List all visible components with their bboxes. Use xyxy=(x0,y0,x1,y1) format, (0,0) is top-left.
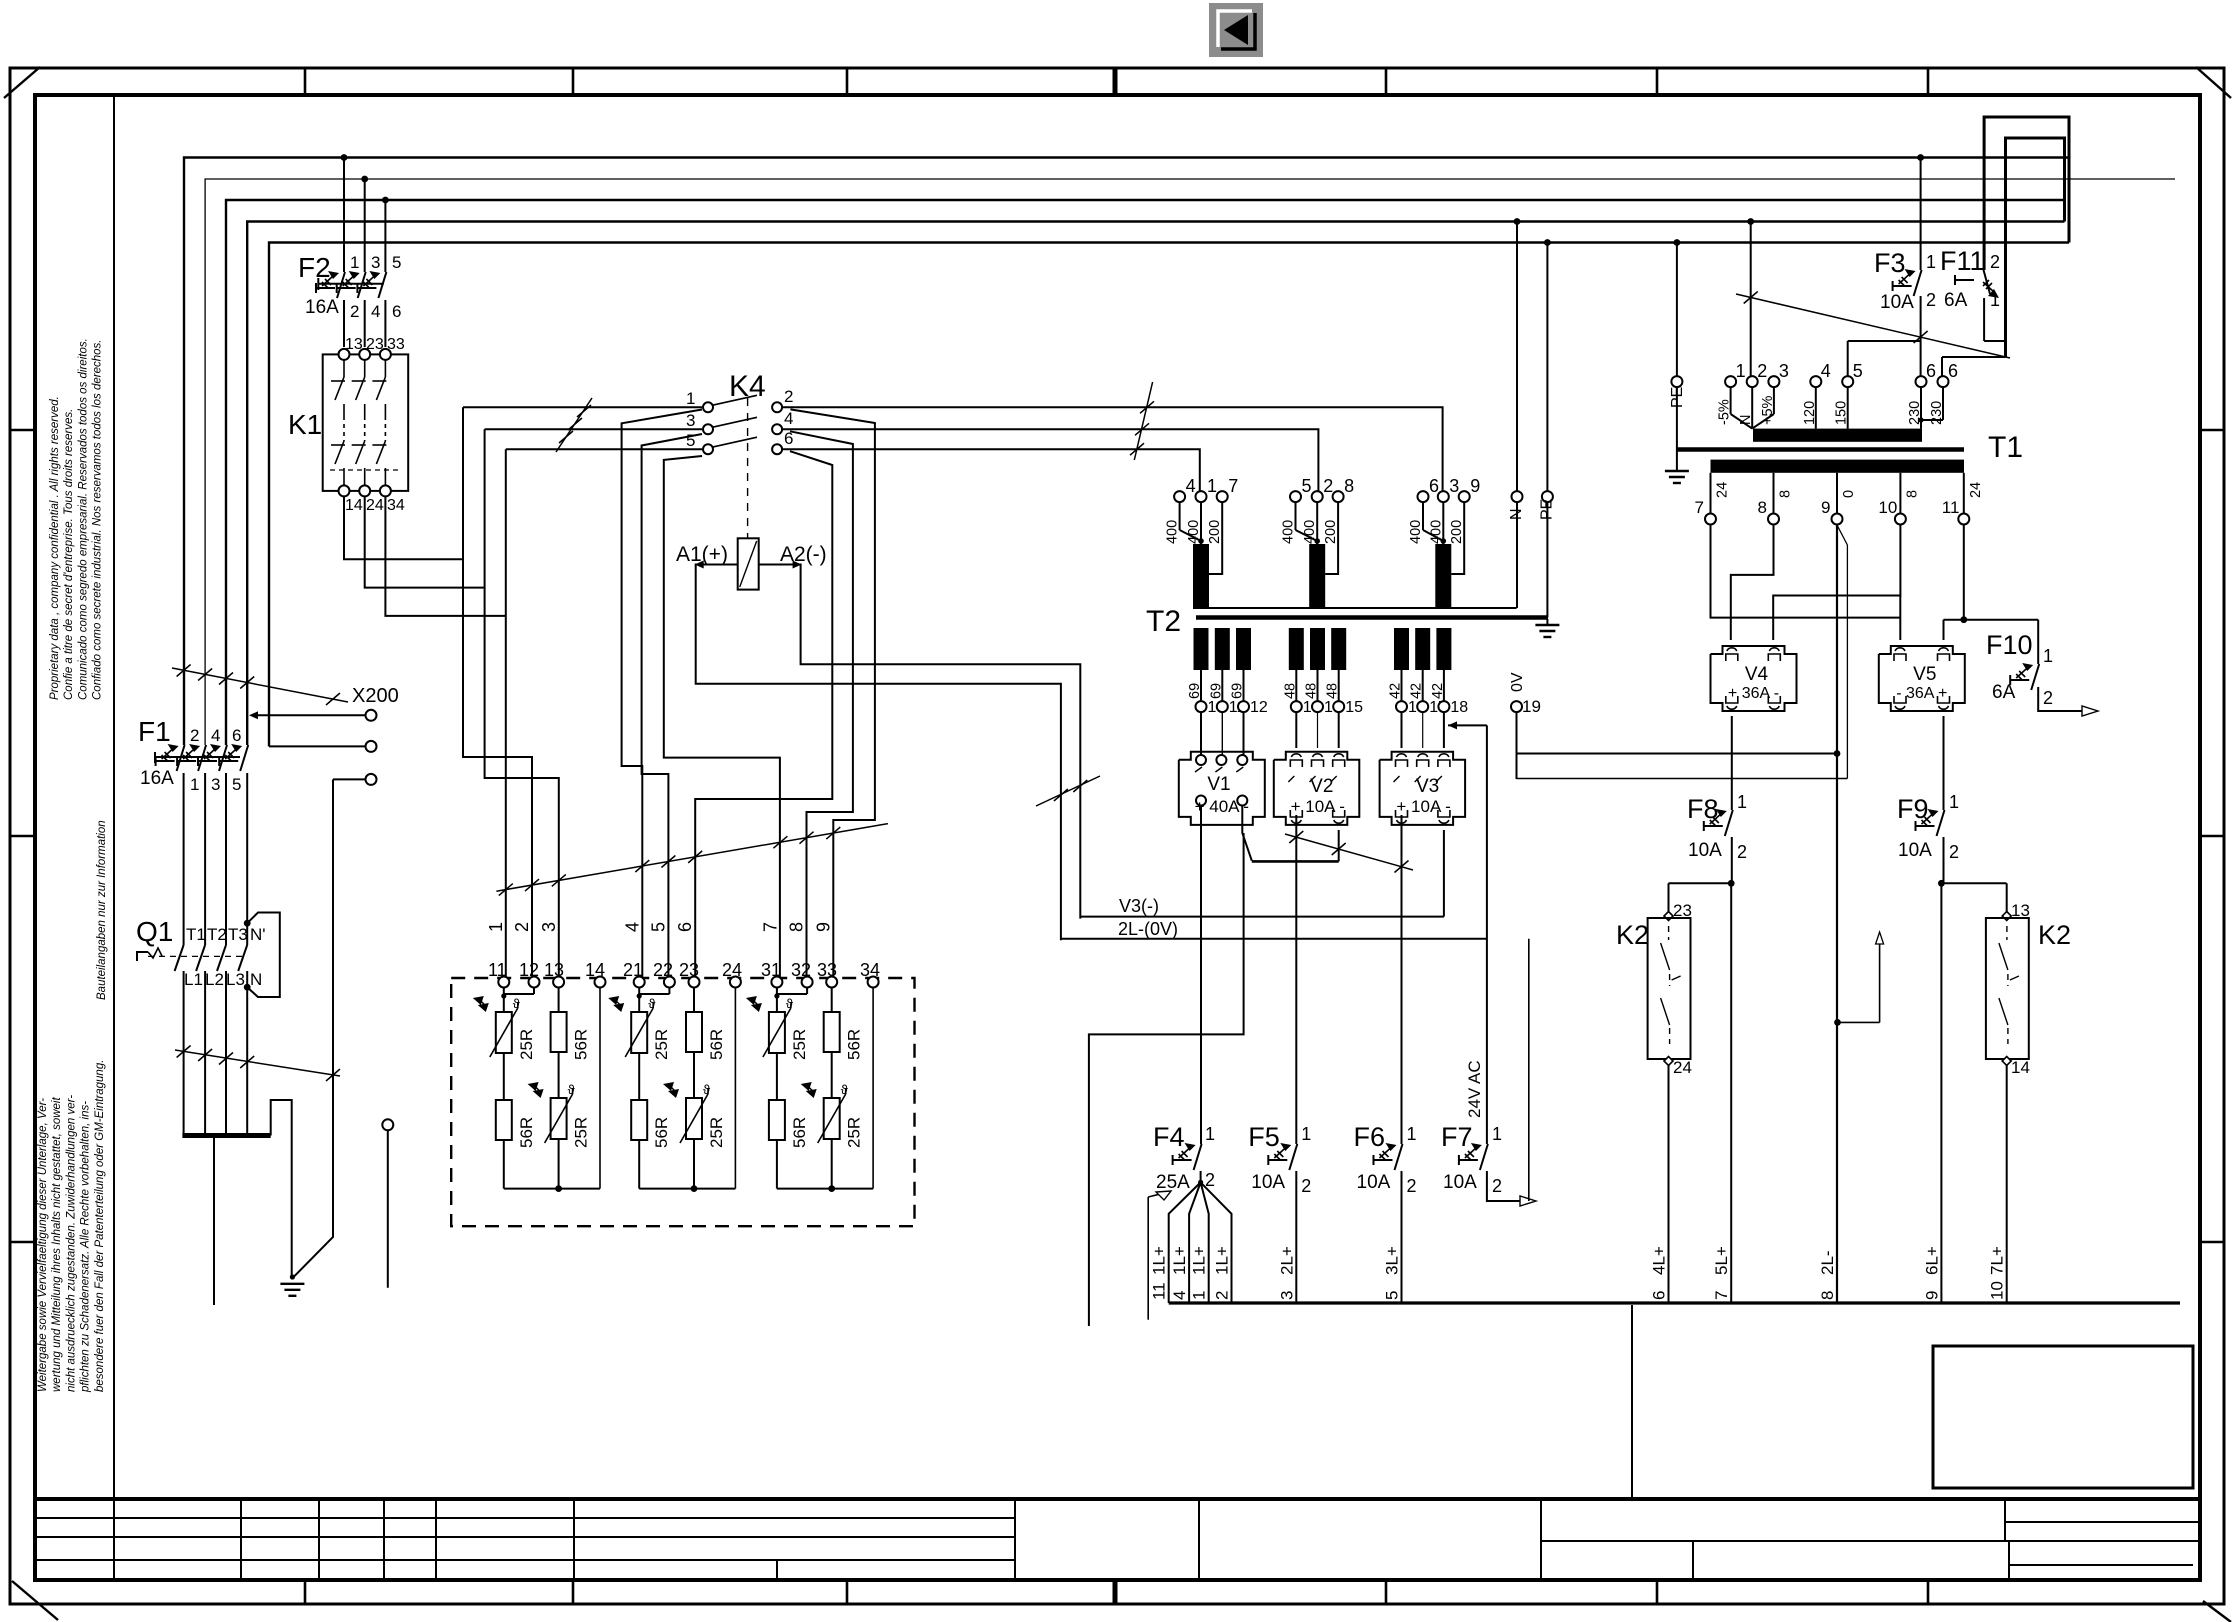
svg-text:wertung und Mitteilung ihres: wertung und Mitteilung ihres Inhalts nic… xyxy=(51,1097,63,1392)
svg-text:1: 1 xyxy=(1301,1124,1311,1144)
wire feeder 1 xyxy=(505,449,507,981)
svg-text:pflichten zu Schadenersatz. Al: pflichten zu Schadenersatz. Alle Rechte … xyxy=(80,1101,92,1393)
svg-text:14: 14 xyxy=(2011,1058,2030,1077)
rectifier V1 xyxy=(1179,752,1265,825)
svg-text:400: 400 xyxy=(1408,520,1424,544)
terminal spare circle xyxy=(382,1119,393,1287)
svg-text:6: 6 xyxy=(232,726,241,745)
wire K4 row 2 xyxy=(485,429,1319,491)
svg-text:1: 1 xyxy=(1737,792,1747,812)
wire F10 output arrow xyxy=(2038,687,2098,716)
svg-text:69: 69 xyxy=(1230,683,1246,699)
transformer T2 label xyxy=(1146,605,1181,638)
svg-text:25R: 25R xyxy=(517,1029,536,1060)
wire Q1 N bypass jumper xyxy=(244,913,280,998)
fuse F4 xyxy=(1153,1122,1215,1193)
svg-text:24: 24 xyxy=(1715,482,1731,498)
svg-text:F1: F1 xyxy=(138,716,171,747)
svg-text:nicht ausdruecklich zugestande: nicht ausdruecklich zugestanden. Zuwider… xyxy=(65,1095,77,1392)
svg-text:0: 0 xyxy=(1841,490,1857,498)
svg-text:V1: V1 xyxy=(1207,774,1230,795)
svg-text:3: 3 xyxy=(686,411,695,430)
wire K4 pin6 drop xyxy=(695,451,832,981)
svg-text:2: 2 xyxy=(1407,1176,1417,1196)
svg-text:X200: X200 xyxy=(352,685,399,707)
wire T1 PE riser xyxy=(1669,239,1686,449)
svg-text:2L-: 2L- xyxy=(1818,1250,1837,1275)
wire bus L2 xyxy=(205,179,2175,745)
wire T2 to V2 xyxy=(1296,712,1338,748)
svg-text:+ 10A -: + 10A - xyxy=(1396,797,1450,816)
svg-text:2: 2 xyxy=(1926,290,1936,310)
border zone ticks bottom xyxy=(305,1580,1928,1604)
wire bus hook outer xyxy=(1984,117,2069,270)
svg-text:34: 34 xyxy=(387,497,405,514)
svg-text:2: 2 xyxy=(1492,1176,1502,1196)
svg-text:6A: 6A xyxy=(1992,682,2016,703)
resistor group first terminals xyxy=(498,977,605,988)
svg-text:V4: V4 xyxy=(1745,664,1769,685)
svg-text:18: 18 xyxy=(1450,699,1468,716)
transformer T2 primary terminals 6 3 9 xyxy=(1408,476,1480,544)
node 2L 0V rail xyxy=(1061,919,1487,939)
rectifier V4 xyxy=(1711,646,1797,711)
svg-text:24: 24 xyxy=(366,497,384,514)
svg-text:7L+: 7L+ xyxy=(1988,1246,2007,1275)
wire K4 pin4 drop xyxy=(790,431,853,981)
node V3 minus rail xyxy=(1080,896,1444,917)
svg-text:T3: T3 xyxy=(228,925,248,944)
svg-text:7: 7 xyxy=(760,922,780,932)
svg-text:T2: T2 xyxy=(207,925,227,944)
transformer T2 secondary winding 15 xyxy=(1325,628,1363,716)
wire 0V rails xyxy=(1517,712,1848,779)
svg-text:69: 69 xyxy=(1187,683,1203,699)
svg-text:48: 48 xyxy=(1325,683,1341,699)
svg-text:25R: 25R xyxy=(572,1117,591,1148)
transformer T1 label xyxy=(1988,431,2023,464)
wire V1 minus jumper xyxy=(1242,806,1338,861)
wire K4 pin3 tap drop xyxy=(642,434,702,981)
svg-text:4: 4 xyxy=(371,302,380,321)
rectifier V5 xyxy=(1879,646,1965,711)
svg-text:3: 3 xyxy=(1449,476,1459,496)
svg-text:10A: 10A xyxy=(1443,1172,1477,1193)
svg-text:11: 11 xyxy=(1150,1282,1169,1300)
varistor 25R lower first xyxy=(528,1052,591,1148)
svg-text:- 36A +: - 36A + xyxy=(1896,685,1947,702)
margin text Weitergabe notice xyxy=(37,1060,106,1393)
svg-text:Confie a titre de secret d'ent: Confie a titre de secret d'entreprise. T… xyxy=(63,409,75,700)
wire V4 output to F8 xyxy=(1731,716,1733,810)
svg-text:ϑ: ϑ xyxy=(786,996,794,1011)
wire T2 to V3 xyxy=(1402,712,1444,748)
labels F4 fan wires xyxy=(1150,1246,1232,1300)
svg-text:25R: 25R xyxy=(652,1029,671,1060)
switch Q1 xyxy=(136,916,266,995)
varistor 25R upper first xyxy=(473,988,536,1061)
resistor load bank enclosure xyxy=(451,978,914,1226)
wire F8 to rail and K2 branch xyxy=(1669,837,1735,1303)
svg-text:2: 2 xyxy=(1737,842,1747,862)
svg-text:3L+: 3L+ xyxy=(1383,1246,1402,1275)
svg-text:4: 4 xyxy=(211,726,220,745)
svg-text:6: 6 xyxy=(1429,476,1439,496)
wire feeder 2 xyxy=(463,407,532,981)
wire stub below bar xyxy=(213,1138,215,1305)
transformer T1 primary winding xyxy=(1753,429,1922,442)
fuse F10 xyxy=(1986,620,2053,708)
wire V5 output to F9 xyxy=(1943,716,1945,810)
svg-text:14: 14 xyxy=(345,497,363,514)
svg-text:19: 19 xyxy=(1522,697,1541,716)
title block grid xyxy=(35,1499,2200,1580)
wire T2 primary taps 6 3 9 xyxy=(1423,502,1464,574)
svg-text:69: 69 xyxy=(1208,683,1224,699)
svg-text:6: 6 xyxy=(675,922,695,932)
svg-text:V3(-): V3(-) xyxy=(1119,896,1159,916)
wire T2 primary taps 5 2 8 xyxy=(1296,502,1339,574)
svg-text:10A: 10A xyxy=(1251,1172,1285,1193)
svg-text:16A: 16A xyxy=(140,768,174,789)
svg-text:T1: T1 xyxy=(1988,431,2023,464)
svg-text:5: 5 xyxy=(1383,1291,1402,1300)
svg-text:2: 2 xyxy=(512,922,532,932)
svg-text:Comunicado como segredo empres: Comunicado como segredo empresarial. Res… xyxy=(77,338,89,700)
wire group slash above F1 xyxy=(172,665,348,706)
wire group slash T2 feed rows xyxy=(1130,382,1154,460)
fuse F11 xyxy=(1940,117,2006,341)
svg-text:2L-(0V): 2L-(0V) xyxy=(1118,919,1178,939)
svg-text:F11: F11 xyxy=(1940,246,1985,276)
transformer T2 secondary winding 17 xyxy=(1409,628,1447,716)
wire K4 row 1 xyxy=(463,407,1443,491)
node N bar xyxy=(182,1133,270,1138)
margin text Bauteilangaben xyxy=(96,820,108,1000)
svg-text:5: 5 xyxy=(232,775,241,794)
svg-text:T1: T1 xyxy=(186,925,206,944)
back navigation button xyxy=(1209,3,1263,57)
svg-text:8: 8 xyxy=(1904,490,1920,498)
wire bus L1 xyxy=(184,158,2069,746)
svg-text:8: 8 xyxy=(1344,476,1354,496)
svg-text:F7: F7 xyxy=(1441,1122,1473,1152)
wire V1 plus to F4 xyxy=(1200,806,1202,1144)
svg-text:4: 4 xyxy=(1821,361,1831,381)
svg-text:200: 200 xyxy=(1449,520,1465,544)
wire T2 to V1 xyxy=(1201,712,1244,755)
svg-text:4: 4 xyxy=(1170,1291,1189,1300)
wire T1 tap 5 link xyxy=(1848,341,1921,376)
svg-text:A2(-): A2(-) xyxy=(780,543,827,566)
svg-text:1: 1 xyxy=(1205,1124,1215,1144)
wire T1 pin10 to V4 right xyxy=(1773,525,1900,641)
svg-text:Q1: Q1 xyxy=(136,916,173,947)
wire T2 PE riser xyxy=(1538,239,1555,617)
svg-text:1: 1 xyxy=(686,389,695,408)
border zone ticks right xyxy=(2200,430,2224,1242)
wire bus L3 xyxy=(226,200,2065,745)
wire F6 to rail xyxy=(1383,1171,1402,1303)
transformer T2 secondary winding 10 xyxy=(1187,628,1225,716)
terminal T2 0V 19 xyxy=(1509,672,1541,716)
wire T1 pin11 to V5 right xyxy=(1944,525,2039,641)
wire 2L spare drop xyxy=(1528,939,1530,1201)
svg-text:10A: 10A xyxy=(1357,1172,1391,1193)
svg-text:F9: F9 xyxy=(1897,794,1929,824)
breaker F1 xyxy=(138,716,248,794)
svg-text:8: 8 xyxy=(1778,490,1794,498)
svg-text:V2: V2 xyxy=(1310,776,1333,797)
svg-text:8: 8 xyxy=(1818,1291,1837,1300)
wire group slash below Q1 xyxy=(175,1046,340,1082)
svg-text:3: 3 xyxy=(1779,361,1789,381)
svg-text:2: 2 xyxy=(1990,252,2000,272)
svg-text:9: 9 xyxy=(1922,1291,1941,1300)
svg-text:3: 3 xyxy=(371,253,380,272)
svg-text:8: 8 xyxy=(787,922,807,932)
svg-text:42: 42 xyxy=(1388,683,1404,699)
transformer T2 secondary winding 13 xyxy=(1282,628,1320,716)
transformer T2 secondary winding 18 xyxy=(1430,628,1468,716)
svg-text:25R: 25R xyxy=(707,1117,726,1148)
svg-text:ϑ: ϑ xyxy=(648,996,656,1011)
wire K2 coil reference arrow xyxy=(1834,932,1884,1026)
svg-text:9: 9 xyxy=(1821,498,1830,517)
svg-text:K2: K2 xyxy=(2038,920,2071,950)
svg-text:F3: F3 xyxy=(1874,248,1906,278)
wire T1 primary taps xyxy=(1731,387,1943,429)
contactor contact K2 left xyxy=(1616,883,1692,1303)
svg-text:12: 12 xyxy=(1250,699,1268,716)
wire F7 output arrow xyxy=(1487,1171,1536,1206)
svg-text:6: 6 xyxy=(1948,361,1958,381)
svg-text:400: 400 xyxy=(1165,520,1181,544)
svg-text:10A: 10A xyxy=(1898,840,1932,861)
svg-text:4: 4 xyxy=(622,922,642,932)
svg-text:56R: 56R xyxy=(845,1029,864,1060)
svg-text:200: 200 xyxy=(1207,520,1223,544)
ground symbol T2 xyxy=(1535,619,1559,637)
labels rail terminals right xyxy=(1650,1246,2007,1300)
wire V1 minus drop xyxy=(1089,833,1244,1326)
svg-text:Confiado como secrete industri: Confiado como secrete industrial. Nos re… xyxy=(92,339,104,700)
wire K4 pin1 tap drop xyxy=(622,410,702,982)
svg-text:3: 3 xyxy=(539,922,559,932)
rectifier V2 xyxy=(1274,752,1360,825)
svg-text:2: 2 xyxy=(784,387,793,406)
svg-text:besondere fuer den Fall der Pa: besondere fuer den Fall der Patenterteil… xyxy=(94,1060,106,1392)
wire bus N xyxy=(247,222,2064,746)
svg-text:5: 5 xyxy=(1853,361,1863,381)
wire F9 to rail and K2 branch xyxy=(1938,837,2007,1303)
wire group slash feeder bundle xyxy=(496,824,888,896)
svg-text:Weitergabe sowie Vervielfael: Weitergabe sowie Vervielfaeltigung diese… xyxy=(37,1098,49,1392)
svg-text:+ 36A -: + 36A - xyxy=(1728,685,1779,702)
transformer T2 primary winding 2 xyxy=(1309,544,1325,608)
svg-text:10A: 10A xyxy=(1688,840,1722,861)
svg-text:48: 48 xyxy=(1304,683,1320,699)
svg-text:6: 6 xyxy=(392,302,401,321)
svg-text:6A: 6A xyxy=(1944,290,1968,311)
svg-text:2: 2 xyxy=(2043,688,2053,708)
svg-text:ϑ: ϑ xyxy=(568,1082,576,1097)
border zone ticks top xyxy=(305,68,1928,95)
svg-text:5: 5 xyxy=(1302,476,1312,496)
svg-text:16A: 16A xyxy=(305,297,339,318)
svg-text:7: 7 xyxy=(1712,1291,1731,1300)
svg-text:1: 1 xyxy=(1926,252,1936,272)
transformer T2 secondary winding 12 xyxy=(1230,628,1268,716)
svg-text:25R: 25R xyxy=(845,1117,864,1148)
wire group slash F3 F11 xyxy=(1736,292,2010,359)
svg-text:4L+: 4L+ xyxy=(1650,1246,1669,1275)
svg-text:9: 9 xyxy=(813,922,833,932)
svg-text:1: 1 xyxy=(2043,646,2053,666)
svg-text:L2: L2 xyxy=(205,970,224,989)
fuse F8 xyxy=(1687,792,1747,862)
svg-text:0V: 0V xyxy=(1509,672,1526,692)
svg-text:6: 6 xyxy=(1650,1291,1669,1300)
wire T1 pin9 thin branch xyxy=(1837,525,1847,779)
svg-text:7: 7 xyxy=(1228,476,1238,496)
svg-text:10A: 10A xyxy=(1880,292,1914,313)
resistor 56R lower third xyxy=(769,1053,809,1148)
transformer T2 core xyxy=(1196,615,1548,620)
svg-text:56R: 56R xyxy=(572,1029,591,1060)
resistor 56R upper third xyxy=(824,988,864,1061)
svg-text:7: 7 xyxy=(1695,498,1704,517)
svg-text:L3: L3 xyxy=(226,970,245,989)
wire bus hook inner xyxy=(2006,138,2065,357)
svg-text:K1: K1 xyxy=(288,409,322,440)
svg-text:25A: 25A xyxy=(1156,1172,1190,1193)
wire F4 fan-out xyxy=(1169,1171,1232,1303)
revision box xyxy=(1933,1346,2193,1488)
svg-text:4: 4 xyxy=(784,409,793,428)
svg-text:1: 1 xyxy=(1736,361,1746,381)
wire F5 to rail xyxy=(1277,1171,1296,1303)
svg-text:N': N' xyxy=(250,925,266,944)
svg-text:6L+: 6L+ xyxy=(1922,1246,1941,1275)
margin column line xyxy=(113,95,115,1499)
wire group slash V outputs xyxy=(1285,831,1413,873)
svg-text:1: 1 xyxy=(1990,290,2000,310)
svg-text:K2: K2 xyxy=(1616,920,1649,950)
svg-text:5L+: 5L+ xyxy=(1712,1246,1731,1275)
wire Q1 outputs to bar xyxy=(184,995,248,1136)
svg-text:ϑ: ϑ xyxy=(513,996,521,1011)
svg-text:ϑ: ϑ xyxy=(703,1082,711,1097)
svg-text:1L+: 1L+ xyxy=(1190,1246,1209,1275)
svg-text:56R: 56R xyxy=(707,1029,726,1060)
fuse F3 xyxy=(1874,154,1936,376)
transformer T2 primary winding 1 xyxy=(1193,544,1209,608)
resistor group second jumper xyxy=(637,988,670,999)
wire F1 to Q1 xyxy=(184,773,248,945)
svg-text:9: 9 xyxy=(1470,476,1480,496)
varistor 25R lower second xyxy=(663,1052,726,1148)
wire T1 pin10 to V5 left drop xyxy=(1899,596,1901,641)
varistor 25R lower third xyxy=(801,1052,864,1148)
resistor 56R lower first xyxy=(496,1053,536,1148)
margin text proprietary notice xyxy=(49,338,104,700)
svg-text:15: 15 xyxy=(1345,699,1363,716)
svg-text:Bauteilangaben nur zur Informa: Bauteilangaben nur zur Information xyxy=(96,820,108,1000)
svg-text:2L+: 2L+ xyxy=(1277,1246,1296,1275)
svg-text:1: 1 xyxy=(350,253,359,272)
svg-text:ϑ: ϑ xyxy=(841,1082,849,1097)
svg-text:+ 10A -: + 10A - xyxy=(1291,797,1345,816)
wire V3 minus to rail xyxy=(1443,830,1445,917)
wire T1 230V terminals xyxy=(1942,357,2006,376)
ground symbol left xyxy=(280,1284,304,1296)
transformer T1 primary terminals xyxy=(1717,361,1958,425)
svg-text:11: 11 xyxy=(1942,498,1960,517)
svg-text:F10: F10 xyxy=(1986,630,2033,660)
svg-text:24: 24 xyxy=(1673,1058,1692,1077)
svg-text:1: 1 xyxy=(190,775,199,794)
wire resistor group first bottom xyxy=(504,988,600,1193)
resistor group second terminals xyxy=(634,977,741,988)
svg-text:N: N xyxy=(250,970,262,989)
wire K4 pin5 tap drop xyxy=(664,456,780,981)
fuse F5 xyxy=(1248,1122,1311,1196)
wire resistor group second bottom xyxy=(639,988,735,1193)
resistor group third jumper xyxy=(774,988,807,999)
wire T1 pin9 column 2L- xyxy=(1836,525,1838,1304)
resistor group third terminals xyxy=(771,977,878,988)
svg-text:10: 10 xyxy=(1878,498,1897,517)
border zone ticks left xyxy=(10,430,35,1242)
transformer T1 core xyxy=(1677,447,1964,452)
wire F2 feeders xyxy=(341,154,389,272)
svg-text:1L+: 1L+ xyxy=(1170,1246,1189,1275)
svg-text:1: 1 xyxy=(1190,1291,1209,1300)
varistor 25R upper second xyxy=(608,988,671,1061)
wire bus PE xyxy=(269,243,2069,747)
transformer T2 primary winding 3 xyxy=(1435,544,1451,608)
wire X200-3 to ground xyxy=(290,779,333,1279)
svg-text:24: 24 xyxy=(1968,482,1984,498)
fuse F7 xyxy=(1441,1060,1502,1196)
wire K4 row 3 xyxy=(506,449,1200,491)
wire group slash K1-K4 rows xyxy=(556,398,592,452)
svg-text:1: 1 xyxy=(1492,1124,1502,1144)
relay coil K4 xyxy=(676,538,827,589)
svg-text:V3: V3 xyxy=(1416,776,1439,797)
wire K4 coil A2 to V3 minus rail xyxy=(759,561,1081,919)
wire T1 pin8 to V4 left xyxy=(1731,525,1774,641)
svg-text:56R: 56R xyxy=(652,1117,671,1148)
svg-text:F5: F5 xyxy=(1248,1122,1280,1152)
svg-text:8: 8 xyxy=(1758,498,1767,517)
contactor K4 contacts xyxy=(686,370,793,538)
resistor 56R upper first xyxy=(551,988,591,1061)
svg-text:T2: T2 xyxy=(1146,605,1181,638)
svg-text:10: 10 xyxy=(1988,1281,2007,1300)
terminal strip X200 xyxy=(249,685,399,785)
contactor contact K2 right xyxy=(1986,883,2071,1303)
wire F5 feed xyxy=(1295,815,1297,1144)
transformer T1 secondary winding xyxy=(1711,460,1965,473)
svg-text:+ 40A -: + 40A - xyxy=(1195,797,1249,816)
fuse F6 xyxy=(1354,1122,1417,1196)
svg-text:56R: 56R xyxy=(790,1117,809,1148)
svg-text:F4: F4 xyxy=(1153,1122,1185,1152)
transformer T2 secondary winding 11 xyxy=(1208,628,1245,716)
wire drop below rail xyxy=(1631,1305,1633,1497)
